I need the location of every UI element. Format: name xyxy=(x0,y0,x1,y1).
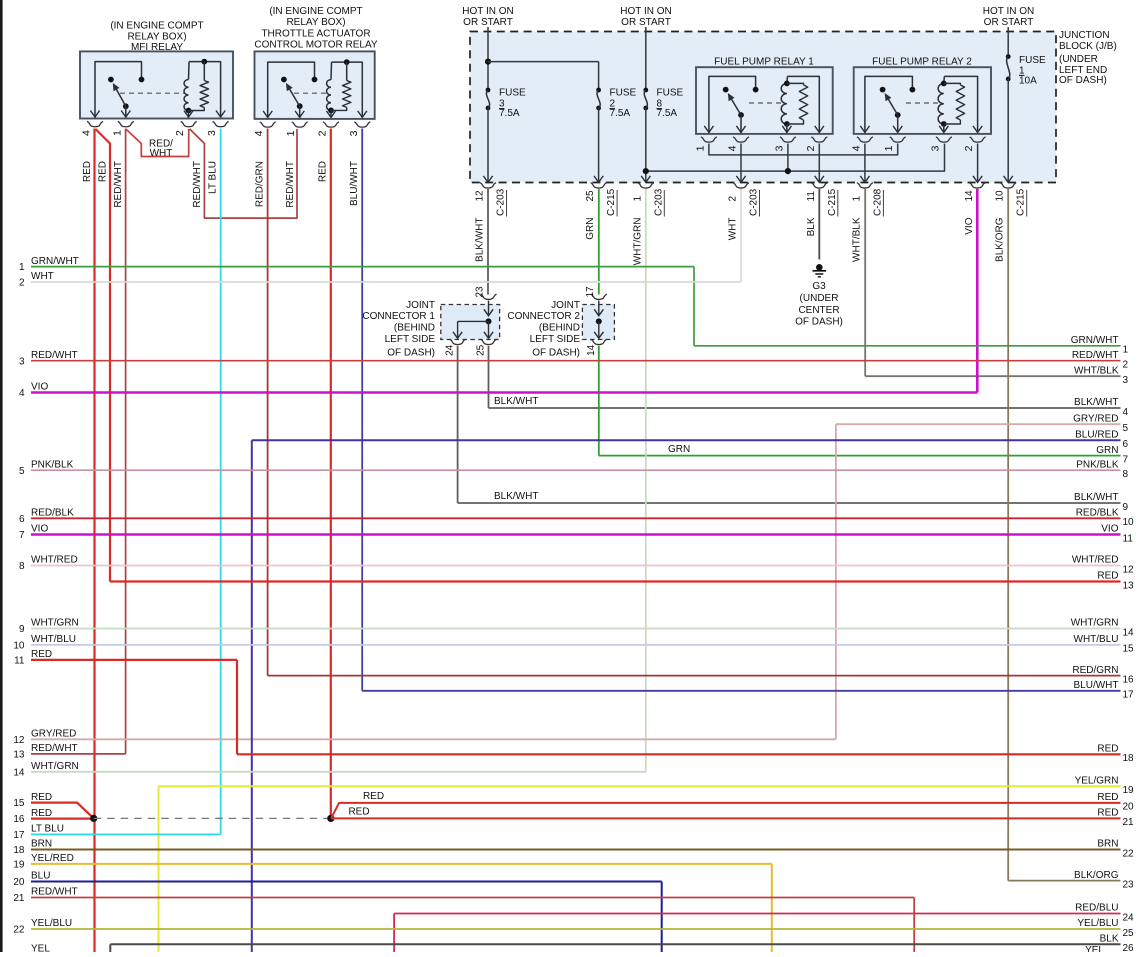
svg-text:C-215: C-215 xyxy=(606,188,617,216)
svg-text:RED: RED xyxy=(363,791,384,802)
wire VIO from pin 14 down to VIO row (left 4) xyxy=(31,189,977,393)
svg-text:YEL/BLU: YEL/BLU xyxy=(1077,918,1118,929)
svg-text:14: 14 xyxy=(1123,627,1135,638)
svg-text:BLK/ORG: BLK/ORG xyxy=(1074,870,1119,881)
wire RED/WHT from MFI pin 1 down to RED/WHT row (left 13) xyxy=(113,129,126,754)
svg-text:WHT: WHT xyxy=(150,148,173,159)
svg-text:5: 5 xyxy=(19,466,25,477)
wire RED from MFI pin 4 jog to x110 down to RED row (right 13) xyxy=(96,129,111,582)
svg-text:2: 2 xyxy=(805,145,817,151)
svg-text:10: 10 xyxy=(1123,517,1135,528)
wire LT BLU from MFI pin 3 down to LT BLU row (left 17) xyxy=(208,129,221,835)
svg-text:3: 3 xyxy=(773,145,785,151)
svg-text:GRY/RED: GRY/RED xyxy=(31,729,76,740)
wire YEL/RED row 19 with riser down to bottom edge xyxy=(31,864,772,952)
wire WHT/GRN row 9 (right 14) xyxy=(31,628,1121,630)
svg-text:BLK/WHT: BLK/WHT xyxy=(494,396,538,407)
svg-text:(BEHIND: (BEHIND xyxy=(394,323,435,334)
connector C-208 pin 1 (WHT/BLK) xyxy=(851,183,883,262)
svg-text:OF DASH): OF DASH) xyxy=(1059,75,1107,86)
svg-text:20: 20 xyxy=(1123,802,1135,813)
svg-text:11: 11 xyxy=(806,191,817,202)
connector pin 14 (VIO) xyxy=(964,183,986,235)
svg-text:RED/BLK: RED/BLK xyxy=(31,508,74,519)
svg-text:YEL/BLU: YEL/BLU xyxy=(31,918,72,929)
left wire number and name labels xyxy=(13,256,78,955)
connector C-215 pin 11 (BLK) xyxy=(806,183,838,237)
svg-text:VIO: VIO xyxy=(964,217,975,234)
svg-text:21: 21 xyxy=(1123,817,1135,828)
svg-text:13: 13 xyxy=(13,750,25,761)
svg-text:18: 18 xyxy=(1123,753,1135,764)
right wire number and name labels xyxy=(1071,335,1134,956)
svg-text:LEFT SIDE: LEFT SIDE xyxy=(385,334,436,345)
svg-text:OF DASH): OF DASH) xyxy=(532,348,580,359)
svg-text:BLK/WHT: BLK/WHT xyxy=(1074,492,1118,503)
wire JB internal: fp-relay1 pin2 down to C-215 xyxy=(815,144,824,183)
svg-text:C-208: C-208 xyxy=(872,188,883,216)
svg-text:17: 17 xyxy=(13,830,25,841)
svg-text:RED: RED xyxy=(1097,808,1118,819)
svg-text:OR START: OR START xyxy=(463,17,513,28)
wire WHT/RED row 8 (right 12) xyxy=(31,565,1121,567)
svg-text:RED: RED xyxy=(1097,571,1118,582)
svg-text:FUSE: FUSE xyxy=(657,88,684,99)
svg-text:3: 3 xyxy=(1123,375,1129,386)
svg-text:VIO: VIO xyxy=(1101,524,1118,535)
svg-text:(IN ENGINE COMPT: (IN ENGINE COMPT xyxy=(269,6,362,17)
wire WHT/GRN row 14 xyxy=(31,771,646,773)
svg-text:1: 1 xyxy=(1123,345,1129,356)
svg-text:2: 2 xyxy=(19,278,25,289)
svg-text:YEL/GRN: YEL/GRN xyxy=(1075,776,1119,787)
wire RED/BLU right 24 with riser down to bottom edge xyxy=(394,914,1120,953)
svg-text:15: 15 xyxy=(13,798,25,809)
svg-text:GRN: GRN xyxy=(1096,445,1118,456)
svg-text:YEL: YEL xyxy=(31,944,50,953)
wire VIO row 7 (right 11) xyxy=(31,533,1121,536)
wire WHT from C-203 pin 2 down to WHT row (left 2) xyxy=(740,189,742,282)
relay U1 MFI RELAY (in engine compt relay box) xyxy=(80,21,233,136)
wire JB internal: fuse8 node to fp-relay pins 3 xyxy=(643,144,945,175)
svg-text:PNK/BLK: PNK/BLK xyxy=(1076,459,1119,470)
junction block J/B (dashed box, under left end of dash) xyxy=(470,32,1056,183)
svg-text:C-215: C-215 xyxy=(827,188,838,216)
svg-text:17: 17 xyxy=(585,286,596,298)
ground G3 (under center of dash) xyxy=(795,189,843,328)
wire RED row 15 slanting into node A xyxy=(31,803,94,819)
svg-text:25: 25 xyxy=(585,190,596,202)
connector C-215 pin 25 (GRN) xyxy=(585,183,617,240)
svg-text:RED: RED xyxy=(348,807,369,818)
svg-text:BLU/WHT: BLU/WHT xyxy=(349,161,360,206)
wire RED right 20 slanting from node B xyxy=(332,791,1121,818)
wire RED/GRN right 16 xyxy=(268,675,1121,677)
svg-text:23: 23 xyxy=(1123,879,1135,890)
svg-text:FUEL PUMP RELAY 2: FUEL PUMP RELAY 2 xyxy=(872,57,972,68)
svg-text:RED: RED xyxy=(31,649,52,660)
svg-text:BLK/WHT: BLK/WHT xyxy=(1074,397,1118,408)
svg-text:JUNCTION: JUNCTION xyxy=(1059,30,1110,41)
svg-text:16: 16 xyxy=(13,814,25,825)
svg-text:JOINT: JOINT xyxy=(406,300,435,311)
joint connector 1 (behind left side of dash) xyxy=(362,286,499,359)
wire BLU/WHT right 17 xyxy=(362,690,1120,692)
svg-text:BLU/RED: BLU/RED xyxy=(1075,429,1118,440)
power feed HOT IN ON OR START (fuse 1 column) xyxy=(983,6,1034,57)
svg-text:WHT/BLU: WHT/BLU xyxy=(1074,634,1119,645)
wire BRN row 18 (right 22) xyxy=(31,849,1121,851)
wire WHT/BLU row 10 (right 15) xyxy=(31,644,1121,646)
svg-text:VIO: VIO xyxy=(31,524,48,535)
svg-text:1: 1 xyxy=(19,262,25,273)
svg-text:LEFT SIDE: LEFT SIDE xyxy=(530,334,581,345)
svg-text:4: 4 xyxy=(1123,407,1129,418)
svg-text:11: 11 xyxy=(1123,533,1134,544)
relay K2 FUEL PUMP RELAY 2 (in junction block) xyxy=(850,57,991,152)
svg-text:23: 23 xyxy=(475,286,486,298)
svg-text:13: 13 xyxy=(1123,580,1135,591)
svg-text:WHT: WHT xyxy=(728,218,739,241)
svg-text:WHT/RED: WHT/RED xyxy=(1072,555,1119,566)
svg-text:3: 3 xyxy=(19,356,25,367)
svg-text:HOT IN ON: HOT IN ON xyxy=(462,6,513,17)
svg-text:6: 6 xyxy=(1123,439,1129,450)
svg-text:RED: RED xyxy=(318,161,329,182)
svg-text:WHT/BLU: WHT/BLU xyxy=(31,634,76,645)
svg-text:C-215: C-215 xyxy=(1016,188,1027,216)
wire BLK/ORG from C-215 pin 10 down to BLK/ORG row (right 23) xyxy=(1008,189,1120,881)
svg-text:GRN: GRN xyxy=(668,444,690,455)
svg-text:BLU: BLU xyxy=(31,871,50,882)
svg-text:2: 2 xyxy=(1123,360,1129,371)
svg-text:1: 1 xyxy=(632,196,643,202)
fuse F8 7.5A xyxy=(641,88,683,183)
junction block label xyxy=(1059,30,1117,86)
svg-text:4: 4 xyxy=(253,130,265,136)
wire BLK/WHT from joint connector 1 pin 25 to BLK/WHT row (right 4) xyxy=(489,346,1121,408)
svg-text:4: 4 xyxy=(81,130,93,136)
svg-text:BLK/WHT: BLK/WHT xyxy=(494,491,538,502)
svg-text:WHT/GRN: WHT/GRN xyxy=(31,618,79,629)
svg-text:HOT IN ON: HOT IN ON xyxy=(983,6,1034,17)
svg-text:4: 4 xyxy=(727,145,739,151)
svg-text:JOINT: JOINT xyxy=(551,300,580,311)
wire JB internal: fp-relay1 pin1 to fp-relay2 pin1 xyxy=(709,144,898,155)
svg-text:OF DASH): OF DASH) xyxy=(387,348,435,359)
svg-text:WHT: WHT xyxy=(31,271,54,282)
wire RED/WHT bathtub jumper MFI pin1 to MFI pin2 xyxy=(126,129,189,159)
svg-text:6: 6 xyxy=(19,514,25,525)
wire BLK/WHT from joint connector 1 pin 24 to BLK/WHT row (right 9) xyxy=(458,346,1121,503)
svg-text:RED/WHT: RED/WHT xyxy=(285,161,296,208)
svg-text:RED/GRN: RED/GRN xyxy=(1072,665,1118,676)
wire RED/WHT row 21 with riser down to bottom edge xyxy=(31,898,914,953)
wire RED row 16 into node A xyxy=(31,817,94,819)
svg-text:FUSE: FUSE xyxy=(1019,55,1046,66)
svg-text:RED/WHT: RED/WHT xyxy=(31,887,78,898)
connector C-203 pin 2 (WHT) xyxy=(728,183,760,241)
svg-text:BLK: BLK xyxy=(1100,934,1119,945)
connector C-203 pin 1 (WHT/GRN) xyxy=(632,183,664,266)
svg-text:CONTROL MOTOR RELAY: CONTROL MOTOR RELAY xyxy=(254,40,377,51)
wire RED/WHT from MFI pin 2 jog to throttle relay pin 1 xyxy=(190,129,297,218)
wire LT BLU row 17 xyxy=(31,833,221,835)
svg-text:RED: RED xyxy=(98,161,109,182)
svg-text:PNK/BLK: PNK/BLK xyxy=(31,459,74,470)
svg-text:1: 1 xyxy=(694,145,706,151)
svg-text:RED/GRN: RED/GRN xyxy=(255,161,266,207)
svg-text:(UNDER: (UNDER xyxy=(1059,54,1098,65)
svg-text:HOT IN ON: HOT IN ON xyxy=(620,6,671,17)
svg-text:14: 14 xyxy=(586,344,597,356)
svg-text:3: 3 xyxy=(929,145,941,151)
svg-text:7: 7 xyxy=(19,530,25,541)
svg-text:4: 4 xyxy=(19,388,25,399)
svg-text:BLK: BLK xyxy=(806,217,817,236)
svg-text:9: 9 xyxy=(1123,502,1129,513)
svg-text:GRN/WHT: GRN/WHT xyxy=(31,256,79,267)
wire RED/BLK row 6 (right 10) xyxy=(31,517,1121,519)
svg-text:BLOCK (J/B): BLOCK (J/B) xyxy=(1059,41,1117,52)
svg-text:2: 2 xyxy=(728,196,739,202)
wire JB internal: fp-relay2 pin4 down to C-208 xyxy=(860,144,869,183)
svg-text:18: 18 xyxy=(13,845,25,856)
svg-text:9: 9 xyxy=(19,624,25,635)
svg-text:11: 11 xyxy=(14,656,25,667)
wire WHT/GRN from C-203 pin 1 down to WHT/GRN row (left 14) xyxy=(645,189,647,772)
svg-text:1: 1 xyxy=(111,130,123,136)
svg-text:1: 1 xyxy=(851,196,862,202)
svg-text:3: 3 xyxy=(206,130,218,136)
wire RED row 11 jog down to RED right 18 xyxy=(31,660,1121,754)
svg-text:RED: RED xyxy=(82,161,93,182)
svg-text:7.5A: 7.5A xyxy=(610,108,631,119)
svg-text:BLK/WHT: BLK/WHT xyxy=(475,218,486,262)
relay K1 FUEL PUMP RELAY 1 (in junction block) xyxy=(694,57,832,152)
svg-text:14: 14 xyxy=(964,190,975,202)
svg-text:10A: 10A xyxy=(1019,75,1037,86)
wire YEL/BLU row 22 (right 25) xyxy=(31,928,1121,930)
wire GRY/RED right 5 riser and row 12 xyxy=(31,424,1121,739)
svg-text:20: 20 xyxy=(13,877,25,888)
wire RED/WHT row 3 (right 2) xyxy=(31,360,1121,362)
svg-text:G3: G3 xyxy=(812,281,826,292)
svg-text:3: 3 xyxy=(348,130,360,136)
svg-text:FUSE: FUSE xyxy=(499,88,526,99)
wire JB internal: fp-relay2 pin2 down to pin 14 xyxy=(973,144,982,183)
fuse F2 7.5A xyxy=(594,62,637,183)
wire GRN/WHT row 1 to right 1 xyxy=(31,267,1121,346)
joint connector 2 (behind left side of dash) xyxy=(507,286,614,359)
svg-text:LT BLU: LT BLU xyxy=(31,824,64,835)
connector C-203 pin 12 (BLK/WHT) xyxy=(475,183,507,262)
wire RED/WHT row 13 xyxy=(31,753,126,755)
svg-text:17: 17 xyxy=(1123,690,1135,701)
wire RED right 13 (from MFI pin 4 jog) xyxy=(110,580,1121,582)
svg-text:(IN ENGINE COMPT: (IN ENGINE COMPT xyxy=(110,21,203,32)
svg-text:25: 25 xyxy=(1123,928,1135,939)
svg-text:RELAY BOX): RELAY BOX) xyxy=(127,32,186,43)
svg-text:22: 22 xyxy=(1123,848,1135,859)
svg-text:RED: RED xyxy=(1097,744,1118,755)
power feed HOT IN ON OR START (fuse 8 column) xyxy=(620,6,671,90)
svg-text:1: 1 xyxy=(883,145,895,151)
svg-text:FUSE: FUSE xyxy=(610,88,637,99)
svg-text:12: 12 xyxy=(13,735,25,746)
svg-text:BLK/ORG: BLK/ORG xyxy=(995,217,1006,262)
svg-text:CONNECTOR 1: CONNECTOR 1 xyxy=(362,311,435,322)
svg-text:RED/BLU: RED/BLU xyxy=(1075,903,1118,914)
svg-text:C-203: C-203 xyxy=(496,188,507,216)
wire dashed link node A to node B xyxy=(94,817,331,819)
svg-text:FUEL PUMP RELAY 1: FUEL PUMP RELAY 1 xyxy=(714,57,814,68)
svg-text:8: 8 xyxy=(19,561,25,572)
wire JB internal: fp-relay1 pin4 down to C-203 xyxy=(736,144,745,183)
wire BLK/WHT from C-203 pin 12 down to joint connector 1 pin 23 xyxy=(487,189,489,295)
svg-text:RED: RED xyxy=(31,808,52,819)
wire BLU/WHT from throttle relay pin 3 down to BLU/WHT row (right 17) xyxy=(349,129,362,691)
svg-text:MFI RELAY: MFI RELAY xyxy=(131,42,183,53)
svg-text:WHT/BLK: WHT/BLK xyxy=(851,217,862,262)
svg-text:7: 7 xyxy=(1123,454,1129,465)
svg-text:15: 15 xyxy=(1123,644,1135,655)
svg-text:VIO: VIO xyxy=(31,382,48,393)
svg-text:4: 4 xyxy=(850,145,862,151)
svg-text:WHT/GRN: WHT/GRN xyxy=(1071,618,1119,629)
svg-text:GRN: GRN xyxy=(585,218,596,240)
wire GRN from C-215 pin 25 down to joint connector 2 pin 17 xyxy=(598,189,600,295)
svg-text:RED/WHT: RED/WHT xyxy=(113,161,124,208)
svg-text:(BEHIND: (BEHIND xyxy=(539,323,580,334)
wire WHT row 2 xyxy=(31,281,741,283)
wire GRN from joint connector 2 pin 14 to GRN row (right 7) xyxy=(599,346,1121,456)
svg-text:OF DASH): OF DASH) xyxy=(795,317,843,328)
svg-text:OR START: OR START xyxy=(621,17,671,28)
wire PNK/BLK row 5 (right 8) xyxy=(31,469,1121,471)
svg-text:2: 2 xyxy=(963,145,975,151)
svg-text:5: 5 xyxy=(1123,423,1129,434)
svg-text:BLU/WHT: BLU/WHT xyxy=(1074,680,1119,691)
svg-text:7.5A: 7.5A xyxy=(657,108,678,119)
svg-text:2: 2 xyxy=(174,130,186,136)
svg-text:BRN: BRN xyxy=(1097,839,1118,850)
svg-text:RED/BLK: RED/BLK xyxy=(1076,508,1119,519)
svg-text:WHT/GRN: WHT/GRN xyxy=(31,761,79,772)
svg-text:7.5A: 7.5A xyxy=(499,108,520,119)
svg-text:RED: RED xyxy=(31,792,52,803)
svg-text:RED/WHT: RED/WHT xyxy=(31,743,78,754)
svg-text:YEL/RED: YEL/RED xyxy=(31,853,74,864)
svg-text:C-203: C-203 xyxy=(749,188,760,216)
svg-text:GRN/WHT: GRN/WHT xyxy=(1071,335,1119,346)
svg-text:RED: RED xyxy=(1097,792,1118,803)
fuse F1 10A xyxy=(1004,54,1046,182)
svg-text:2: 2 xyxy=(317,130,329,136)
svg-text:THROTTLE ACTUATOR: THROTTLE ACTUATOR xyxy=(261,28,370,39)
svg-text:WHT/GRN: WHT/GRN xyxy=(632,218,643,266)
node B junction dot xyxy=(327,815,334,822)
svg-text:21: 21 xyxy=(13,893,25,904)
wire YEL/GRN right 19 with riser down to bottom edge xyxy=(159,786,1121,952)
svg-text:GRY/RED: GRY/RED xyxy=(1073,413,1118,424)
node A junction dot xyxy=(90,815,97,822)
svg-text:RED/WHT: RED/WHT xyxy=(1072,350,1119,361)
svg-text:12: 12 xyxy=(1123,564,1135,575)
svg-text:26: 26 xyxy=(1123,943,1135,952)
svg-text:RED/WHT: RED/WHT xyxy=(192,161,203,208)
svg-text:10: 10 xyxy=(995,190,1006,202)
svg-text:YEL: YEL xyxy=(1085,945,1104,952)
node feed1-fuse2 jumper xyxy=(485,59,599,65)
svg-text:WHT/BLK: WHT/BLK xyxy=(1074,365,1119,376)
svg-text:22: 22 xyxy=(13,925,25,936)
relay U2 THROTTLE ACTUATOR CONTROL MOTOR RELAY (in engine compt relay box) xyxy=(253,6,378,136)
svg-text:OR START: OR START xyxy=(984,17,1034,28)
svg-text:24: 24 xyxy=(1123,912,1135,923)
svg-text:19: 19 xyxy=(1123,785,1135,796)
svg-text:12: 12 xyxy=(475,190,486,202)
wire RED right 21 from node B xyxy=(331,807,1121,819)
svg-text:CENTER: CENTER xyxy=(798,305,839,316)
fuse F3 7.5A xyxy=(483,88,526,183)
svg-text:BRN: BRN xyxy=(31,839,52,850)
wire RED/GRN from throttle relay pin 4 down to RED/GRN row (right 16) xyxy=(255,129,268,676)
svg-text:25: 25 xyxy=(476,344,487,356)
svg-text:14: 14 xyxy=(13,767,25,778)
wire RED from throttle relay pin 2 down to node B xyxy=(318,129,331,819)
svg-text:C-203: C-203 xyxy=(653,188,664,216)
svg-text:RED/WHT: RED/WHT xyxy=(31,350,78,361)
wire BLU/RED right 6 with riser down to bottom edge xyxy=(252,440,1121,952)
wire WHT/BLK from C-208 pin 1 down to WHT/BLK row (right 3) xyxy=(865,189,1120,376)
svg-text:16: 16 xyxy=(1123,674,1135,685)
svg-text:1: 1 xyxy=(285,130,297,136)
svg-text:LT BLU: LT BLU xyxy=(208,161,219,194)
svg-text:WHT/RED: WHT/RED xyxy=(31,555,78,566)
svg-text:8: 8 xyxy=(1123,469,1129,480)
svg-text:19: 19 xyxy=(13,860,25,871)
wire BLK right 26 with stub down at left end xyxy=(110,944,1120,952)
connector C-215 pin 10 (BLK/ORG) xyxy=(995,183,1027,262)
svg-text:RELAY BOX): RELAY BOX) xyxy=(286,17,345,28)
svg-text:10: 10 xyxy=(13,641,25,652)
svg-text:24: 24 xyxy=(445,344,456,356)
svg-text:CONNECTOR 2: CONNECTOR 2 xyxy=(507,311,580,322)
wire BLU row 20 with riser down to bottom edge xyxy=(31,882,662,953)
svg-text:(UNDER: (UNDER xyxy=(800,293,839,304)
wire RED from MFI pin 4 straight down through node A to bottom xyxy=(82,129,95,953)
power feed HOT IN ON OR START (fuse 3 column) xyxy=(462,6,513,90)
